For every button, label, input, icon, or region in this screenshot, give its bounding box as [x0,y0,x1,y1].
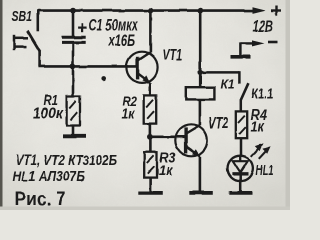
capacitor C1 top lead [72,11,75,36]
resistor R1 bottom lead [72,126,75,136]
transistor VT2 body [175,124,207,156]
switch SB1 top terminal [36,10,39,32]
node junction K1.1 tap [198,70,203,75]
wire minus drop [239,42,242,55]
resistor R3 body [144,152,157,177]
LED HL1 cathode bar [232,173,248,176]
transistor VT2 emitter arrowhead [192,149,200,157]
wire R2 bottom to node [149,124,152,138]
switch SB1 bottom lead [38,51,41,67]
scan edge right [286,0,291,210]
resistor R1 hatches [69,101,77,120]
resistor R4 hatches [238,116,246,134]
svg-text:1к: 1к [122,105,136,121]
resistor R3 hatches [147,156,155,174]
resistor R1 body [67,96,80,126]
chassis bar HL1 [229,191,252,195]
svg-text:К1: К1 [221,77,235,91]
svg-text:К1.1: К1.1 [251,86,273,102]
wire VT1 emitter to R2 [149,83,152,96]
svg-text:SB1: SB1 [12,8,33,25]
node junction C1 rail [70,8,76,14]
transistor VT1 body [126,52,157,83]
svg-text:1к: 1к [159,163,174,180]
svg-text:1к: 1к [251,120,265,136]
transistor VT2 collector [186,125,200,134]
transistor VT1 collector [138,52,151,61]
scan edge bottom [0,207,290,211]
stray ink dot [101,76,106,81]
relay coil K1 [186,87,215,99]
capacitor C1 polarity plus [78,23,87,32]
resistor R3 bottom lead [149,178,152,192]
svg-text:VT1, VT2 КТ3102Б: VT1, VT2 КТ3102Б [16,153,118,169]
wire VT2 emitter down [199,156,202,191]
svg-text:VT1: VT1 [163,47,183,64]
LED HL1 light arrow 2 [259,146,271,159]
transistor VT1 emitter [138,73,150,82]
chassis bar R3 [139,191,163,195]
wire R4 to HL1 [240,138,243,156]
transistor VT2 emitter [186,146,200,156]
node junction K1 rail [197,8,203,14]
svg-text:HL1 АЛ307Б: HL1 АЛ307Б [13,168,86,185]
LED HL1 cathode lead [239,174,242,191]
chassis bar VT2 [189,191,213,195]
transistor VT1 emitter arrowhead [143,75,151,83]
minus sign [268,41,278,44]
node junction R2/R3/VT2 base [147,134,153,140]
wire K1 feed from rail [199,11,202,88]
plus sign [272,6,282,16]
LED HL1 body [228,156,253,181]
svg-text:Рис. 7: Рис. 7 [15,189,67,209]
resistor R3 top lead [149,137,152,152]
svg-text:х16Б: х16Б [108,32,135,50]
wire base node horizontal [38,65,136,68]
svg-text:12В: 12В [253,19,274,36]
resistor R4 body [236,111,247,138]
resistor R1 top lead [72,66,75,96]
minus terminal arrowhead [252,40,265,46]
LED HL1 anode lead inside [239,156,241,162]
wire VT2 collector to K1 [199,99,202,125]
capacitor C1 plates [62,37,85,42]
svg-text:VT2: VT2 [209,114,229,133]
node junction C1/R1 [70,64,76,70]
svg-text:100к: 100к [33,106,65,123]
wire VT1 collector to rail [149,11,152,53]
LED HL1 light arrow 1 [251,143,263,157]
transistor VT2 base bar [184,127,187,153]
transistor VT1 base bar [136,57,139,80]
LED HL1 triangle [233,161,248,172]
wire K1.1 feed horizontal [200,71,239,74]
chassis bar R1 [63,134,87,138]
contact K1.1 bottom lead [240,99,243,111]
switch SB1 blade [27,31,40,52]
minus terminal wire [240,42,254,44]
wire K1.1 feed corner down [238,71,241,83]
wire node to VT2 base [150,136,185,139]
resistor R2 body [144,95,157,123]
capacitor C1 bottom lead [72,44,75,67]
contact K1.1 blade [241,83,249,100]
switch SB1 pushbutton bracket [13,35,28,50]
plus supply arrowhead [253,7,267,14]
chassis bar minus [231,55,251,59]
svg-text:HL1: HL1 [256,162,274,179]
resistor R2 hatches [146,100,154,119]
scan edge left [0,0,3,210]
wire top supply rail [38,9,254,12]
node junction VT1 rail [148,8,154,14]
